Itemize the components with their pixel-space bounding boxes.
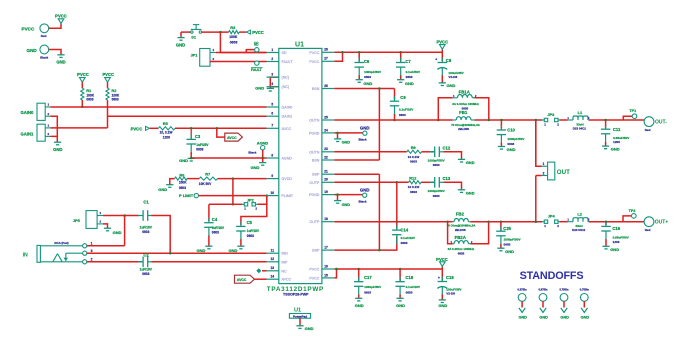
svg-text:GND: GND xyxy=(179,158,188,163)
svg-text:0805: 0805 xyxy=(458,252,465,256)
svg-text:100K: 100K xyxy=(229,35,238,39)
svg-text:GND: GND xyxy=(466,160,475,165)
ground xyxy=(336,193,339,196)
svg-text:1uF/16V: 1uF/16V xyxy=(247,229,260,233)
svg-text:(NC): (NC) xyxy=(282,76,290,80)
svg-text:PGND: PGND xyxy=(309,131,320,135)
svg-text:PVCC: PVCC xyxy=(77,72,89,77)
wire xyxy=(87,261,142,263)
svg-text:11: 11 xyxy=(271,249,275,253)
svg-text:R6: R6 xyxy=(179,172,185,177)
svg-text:28: 28 xyxy=(324,48,328,52)
svg-text:S1: S1 xyxy=(191,34,197,39)
U1 pin 20 OUTP xyxy=(322,181,335,183)
svg-text:GND: GND xyxy=(197,248,206,253)
svg-text:10K 50V: 10K 50V xyxy=(199,182,212,186)
svg-text:GAIN1: GAIN1 xyxy=(282,115,293,119)
wire xyxy=(51,116,58,136)
svg-text:PVCC: PVCC xyxy=(55,14,67,19)
svg-text:GND: GND xyxy=(363,81,372,86)
svg-text:GND: GND xyxy=(158,187,167,192)
svg-text:3A 0.4Ohm 100MHz: 3A 0.4Ohm 100MHz xyxy=(452,102,479,106)
wire xyxy=(535,120,537,165)
U1 pin 5 GAIN0 xyxy=(267,106,279,108)
svg-text:JP2: JP2 xyxy=(247,197,255,202)
wire OUTN net xyxy=(334,119,438,121)
capacitor C18 xyxy=(399,268,402,271)
svg-text:26: 26 xyxy=(324,84,328,88)
svg-text:Red: Red xyxy=(645,228,651,232)
node junction xyxy=(535,119,538,122)
svg-text:GND: GND xyxy=(560,316,569,320)
wire xyxy=(216,52,267,54)
ferrite bead FB1A xyxy=(438,98,452,120)
svg-text:1206: 1206 xyxy=(613,240,620,244)
supply PVCC xyxy=(440,45,446,50)
U1 pin 9 GVDD xyxy=(267,178,279,180)
node junction xyxy=(219,31,222,34)
resistor R12 xyxy=(409,181,421,184)
wire xyxy=(108,115,267,117)
ground xyxy=(237,245,244,247)
svg-text:0603: 0603 xyxy=(399,113,406,117)
svg-text:INN: INN xyxy=(282,252,289,256)
supply PVCC xyxy=(440,262,446,267)
U1 pin 12 INP xyxy=(267,261,279,263)
svg-text:1uF/16V: 1uF/16V xyxy=(140,225,153,229)
svg-text:GND: GND xyxy=(507,147,516,152)
svg-text:(NC): (NC) xyxy=(282,85,290,89)
svg-text:5: 5 xyxy=(271,102,273,106)
testpoint SD xyxy=(246,50,254,53)
U1 pin 2 FAULT xyxy=(267,61,279,63)
svg-text:1: 1 xyxy=(543,162,545,166)
wire xyxy=(589,119,644,121)
wire xyxy=(103,224,108,228)
inductor L1 xyxy=(568,119,573,121)
svg-text:GND: GND xyxy=(447,83,456,88)
svg-text:2BLD08: 2BLD08 xyxy=(455,228,466,232)
svg-text:1000pF/50V: 1000pF/50V xyxy=(504,238,522,242)
wire xyxy=(489,119,542,121)
U1 pin 28 PVCC xyxy=(322,51,335,53)
wire xyxy=(421,181,434,183)
wire AVCC net xyxy=(175,127,267,129)
capacitor C3 xyxy=(190,127,193,130)
svg-text:4: 4 xyxy=(271,82,273,86)
svg-text:TP1: TP1 xyxy=(629,109,636,113)
wire OUTP net xyxy=(334,221,447,223)
svg-text:GND: GND xyxy=(610,247,619,252)
svg-text:10: 10 xyxy=(271,191,275,195)
svg-text:AVCC: AVCC xyxy=(282,278,292,282)
svg-text:0.875in: 0.875in xyxy=(538,288,547,292)
svg-text:BSP: BSP xyxy=(312,249,320,253)
wire xyxy=(150,127,159,129)
svg-text:10 0.1W: 10 0.1W xyxy=(408,155,420,159)
wire xyxy=(152,216,171,254)
ground xyxy=(336,132,339,135)
svg-text:0.875in: 0.875in xyxy=(518,288,527,292)
U1 pin 23 OUTN xyxy=(322,151,335,153)
svg-text:C5: C5 xyxy=(247,220,253,225)
svg-text:NC: NC xyxy=(282,269,288,273)
svg-text:C3: C3 xyxy=(195,134,201,139)
wire xyxy=(87,245,125,247)
svg-text:GAIN0: GAIN0 xyxy=(21,110,34,115)
testpoint TP1 xyxy=(623,116,632,120)
svg-text:9: 9 xyxy=(271,174,273,178)
wire OUTP pin20 xyxy=(334,181,408,183)
svg-text:3: 3 xyxy=(271,73,273,77)
svg-text:RCA (Pad): RCA (Pad) xyxy=(54,241,68,245)
wire xyxy=(187,178,199,180)
svg-text:100K: 100K xyxy=(179,181,187,185)
svg-text:0.750in: 0.750in xyxy=(559,288,568,292)
capacitor C12 xyxy=(430,151,435,153)
node junction xyxy=(341,51,344,54)
node junction xyxy=(437,119,440,122)
svg-text:JP5: JP5 xyxy=(73,218,81,223)
wire to OUT connector xyxy=(535,220,538,223)
wire xyxy=(444,152,462,159)
svg-text:1000pF/50V: 1000pF/50V xyxy=(364,285,382,289)
wire PLIMIT net xyxy=(199,195,267,197)
svg-text:IN: IN xyxy=(23,252,28,258)
svg-text:PVCC: PVCC xyxy=(22,26,35,31)
U1 pin 3 (NC) xyxy=(267,76,279,78)
svg-text:C4: C4 xyxy=(212,217,218,222)
svg-text:8: 8 xyxy=(271,153,273,157)
svg-text:0603: 0603 xyxy=(142,230,149,234)
connector JP1 xyxy=(200,49,210,67)
resistor R9 xyxy=(407,150,422,153)
svg-text:GND: GND xyxy=(251,165,260,170)
svg-text:0.750in: 0.750in xyxy=(580,288,589,292)
ground xyxy=(397,297,404,299)
pad GND near pin19 xyxy=(334,194,362,196)
ground xyxy=(458,189,465,191)
svg-text:R3: R3 xyxy=(230,25,236,30)
wire INN net xyxy=(87,252,267,254)
svg-text:C16: C16 xyxy=(612,226,620,231)
svg-text:Red: Red xyxy=(645,128,651,132)
node NC diamond xyxy=(256,268,261,273)
ground xyxy=(602,145,609,147)
ground xyxy=(458,158,465,160)
svg-text:V2-D8: V2-D8 xyxy=(446,292,455,296)
svg-text:0603: 0603 xyxy=(112,98,119,102)
svg-text:GND: GND xyxy=(176,42,185,47)
svg-text:GND: GND xyxy=(466,190,475,195)
wire xyxy=(262,150,264,158)
svg-text:18: 18 xyxy=(324,217,328,221)
U1 pin 6 GAIN1 xyxy=(267,115,279,117)
ferrite bead FB2 xyxy=(448,221,453,223)
svg-text:C9: C9 xyxy=(400,95,406,100)
svg-text:70 Ohm@100MHz,3A: 70 Ohm@100MHz,3A xyxy=(447,223,477,227)
svg-text:C10: C10 xyxy=(507,127,515,132)
wire BSN net xyxy=(334,88,394,90)
wire xyxy=(560,221,568,223)
svg-text:17: 17 xyxy=(324,246,328,250)
ground xyxy=(602,245,609,247)
node junction xyxy=(393,119,396,122)
svg-text:GND: GND xyxy=(56,60,65,65)
svg-text:15: 15 xyxy=(324,273,328,277)
svg-text:GND: GND xyxy=(405,81,414,86)
wire GAIN1 net xyxy=(51,127,108,129)
svg-text:C25: C25 xyxy=(503,226,511,231)
svg-text:TP2: TP2 xyxy=(629,209,636,213)
inductor L2 xyxy=(568,221,573,223)
svg-text:GND: GND xyxy=(113,230,122,235)
svg-text:R2: R2 xyxy=(111,88,117,93)
svg-text:PVCC: PVCC xyxy=(131,126,143,131)
svg-text:SD: SD xyxy=(254,42,259,46)
svg-text:D23 04C2: D23 04C2 xyxy=(573,127,586,131)
svg-text:P LIMIT: P LIMIT xyxy=(179,193,194,198)
U1 pin 25 OUTN xyxy=(322,119,335,121)
ground xyxy=(356,79,363,81)
node junction xyxy=(396,220,399,223)
wire xyxy=(56,136,58,142)
wire xyxy=(334,159,379,161)
svg-text:JP4: JP4 xyxy=(548,214,556,219)
U1 pin 26 BSN xyxy=(322,88,335,90)
svg-text:C12: C12 xyxy=(443,146,451,151)
svg-text:OUT-: OUT- xyxy=(655,120,667,126)
svg-text:1: 1 xyxy=(271,48,273,52)
capacitor C4 xyxy=(208,204,210,221)
wire GVDD net xyxy=(218,178,267,180)
svg-text:1uF/16V: 1uF/16V xyxy=(140,268,153,272)
svg-text:16: 16 xyxy=(324,264,328,268)
svg-text:INP: INP xyxy=(282,260,289,264)
svg-text:21: 21 xyxy=(324,170,328,174)
svg-text:GND: GND xyxy=(438,303,447,308)
wire xyxy=(124,216,126,246)
ground xyxy=(397,79,404,81)
svg-text:OUTN: OUTN xyxy=(309,119,320,123)
capacitor C13 xyxy=(430,181,435,183)
U1 pin 19 PGND xyxy=(322,194,335,196)
ferrite bead FB2A xyxy=(448,222,453,244)
svg-text:FB2: FB2 xyxy=(456,211,465,216)
svg-text:Black: Black xyxy=(358,199,366,203)
svg-text:0603: 0603 xyxy=(401,241,408,245)
U1 pin 13 NC xyxy=(267,270,279,272)
svg-text:PVCC: PVCC xyxy=(102,72,114,77)
svg-text:C6: C6 xyxy=(364,59,370,64)
svg-text:TSSOP28-PWP: TSSOP28-PWP xyxy=(283,293,309,297)
svg-text:0.1uF/16V: 0.1uF/16V xyxy=(399,108,414,112)
supply PVCC xyxy=(58,19,64,24)
ground xyxy=(262,158,264,162)
svg-text:0805: 0805 xyxy=(462,106,469,110)
svg-text:GAIN0: GAIN0 xyxy=(282,106,293,110)
svg-text:C19: C19 xyxy=(446,275,454,280)
svg-text:R5: R5 xyxy=(163,121,169,126)
wire BSP pin17 xyxy=(334,236,396,250)
wire xyxy=(334,269,336,278)
wire BSP pin21 xyxy=(334,173,379,175)
testpoint FAULT xyxy=(255,61,259,65)
svg-text:GND: GND xyxy=(518,316,527,320)
svg-text:U1: U1 xyxy=(295,41,304,48)
wire xyxy=(180,32,182,37)
capacitor C10 xyxy=(500,119,503,122)
ground xyxy=(497,247,504,249)
svg-text:20: 20 xyxy=(324,178,328,182)
svg-text:C8: C8 xyxy=(446,58,452,63)
wire xyxy=(378,89,380,161)
svg-text:PVCC: PVCC xyxy=(252,30,264,35)
wire INP net xyxy=(152,261,267,263)
svg-text:GAIN1: GAIN1 xyxy=(21,131,34,136)
wire GAIN0 net xyxy=(51,106,267,108)
svg-text:OUT+: OUT+ xyxy=(655,220,669,226)
svg-text:0603: 0603 xyxy=(142,272,149,276)
svg-text:GND: GND xyxy=(355,303,364,308)
svg-text:+: + xyxy=(438,276,440,280)
svg-text:Black: Black xyxy=(248,150,256,154)
wire PVCC bottom xyxy=(334,266,442,269)
svg-text:0603: 0603 xyxy=(364,75,371,79)
svg-text:GND: GND xyxy=(342,141,351,145)
svg-text:Red: Red xyxy=(41,34,47,38)
svg-text:C1: C1 xyxy=(143,200,149,205)
svg-text:AGND: AGND xyxy=(282,157,293,161)
U1 pin 22 BSN xyxy=(322,159,335,161)
capacitor C11 xyxy=(604,119,607,122)
node junction xyxy=(123,214,126,217)
U1 pin 17 BSP xyxy=(322,249,335,251)
svg-text:PVCC: PVCC xyxy=(309,276,319,280)
svg-text:GND: GND xyxy=(396,303,405,308)
wire xyxy=(170,179,175,185)
svg-text:BSN: BSN xyxy=(312,159,320,163)
node junction xyxy=(335,268,338,271)
svg-text:PVCC: PVCC xyxy=(309,268,319,272)
node junction xyxy=(487,220,490,223)
svg-text:OUTN: OUTN xyxy=(309,150,320,154)
wire OUTN pin23 xyxy=(334,151,406,153)
svg-text:0.1uF/16V: 0.1uF/16V xyxy=(401,236,416,240)
svg-text:PGND: PGND xyxy=(309,193,320,197)
capacitor C14 xyxy=(396,225,398,230)
U1 pin 18 OUTP xyxy=(322,221,335,223)
wire xyxy=(103,215,139,217)
svg-text:C2: C2 xyxy=(143,253,149,258)
svg-text:19: 19 xyxy=(324,190,328,194)
svg-text:FB1A: FB1A xyxy=(459,89,470,94)
svg-text:JP1: JP1 xyxy=(191,53,199,58)
svg-text:OUT: OUT xyxy=(557,169,570,176)
pad OUT+ (Red) xyxy=(644,217,654,227)
svg-text:1: 1 xyxy=(91,242,93,246)
svg-text:0.1uF/50V: 0.1uF/50V xyxy=(406,70,421,74)
wire xyxy=(220,32,266,52)
svg-text:0.68uF/50V: 0.68uF/50V xyxy=(613,235,630,239)
wire xyxy=(255,278,267,280)
svg-text:FB1: FB1 xyxy=(459,110,468,115)
svg-text:6: 6 xyxy=(271,112,273,116)
node junction xyxy=(266,194,269,197)
svg-text:0603: 0603 xyxy=(433,163,440,167)
svg-text:STANDOFFS: STANDOFFS xyxy=(520,270,584,282)
svg-text:GND: GND xyxy=(539,316,548,320)
svg-text:10 0.1W: 10 0.1W xyxy=(408,185,420,189)
svg-text:C17: C17 xyxy=(364,275,372,280)
wire xyxy=(49,50,61,55)
wire xyxy=(560,119,568,121)
svg-text:0603: 0603 xyxy=(247,234,254,238)
U1 pin 24 PGND xyxy=(322,132,335,134)
U1 pin 1 SD xyxy=(267,52,279,54)
ground xyxy=(439,82,446,84)
svg-text:R1: R1 xyxy=(86,88,92,93)
wire pins 3-4 NC xyxy=(270,77,279,88)
svg-text:OUTP: OUTP xyxy=(309,181,320,185)
capacitor C5 xyxy=(240,222,242,227)
svg-text:OUTP: OUTP xyxy=(309,220,320,224)
node junction xyxy=(488,119,491,122)
wire xyxy=(378,174,380,250)
U1 pin 10 PLIMIT xyxy=(267,195,279,197)
capacitor C19 polarized xyxy=(441,269,443,281)
wire AGND net xyxy=(191,157,266,159)
ground xyxy=(439,299,446,301)
svg-text:GND: GND xyxy=(360,126,370,131)
svg-text:PowerPad: PowerPad xyxy=(293,314,307,318)
svg-text:GND: GND xyxy=(305,326,314,331)
svg-text:R12: R12 xyxy=(409,175,417,180)
svg-text:2BLD08: 2BLD08 xyxy=(458,127,469,131)
ground xyxy=(205,245,212,247)
svg-text:25: 25 xyxy=(324,115,328,119)
wire xyxy=(241,196,267,225)
wire xyxy=(536,120,542,166)
svg-text:C13: C13 xyxy=(443,176,451,181)
ferrite bead FB1 xyxy=(438,119,452,121)
svg-text:0603: 0603 xyxy=(406,291,413,295)
svg-text:0603: 0603 xyxy=(410,190,417,194)
svg-text:C11: C11 xyxy=(613,127,621,132)
U1 pin 27 PVCC xyxy=(322,60,335,62)
wire xyxy=(239,31,246,33)
svg-text:R9: R9 xyxy=(411,145,417,150)
svg-text:1000pF/50V: 1000pF/50V xyxy=(507,137,525,141)
svg-text:0603: 0603 xyxy=(410,160,417,164)
svg-text:PVCC: PVCC xyxy=(436,257,448,262)
testpoint TP2 xyxy=(623,216,631,222)
capacitor C2 xyxy=(138,261,143,263)
U1 pin 16 PVCC xyxy=(322,268,335,270)
svg-text:10, 0.1W: 10, 0.1W xyxy=(160,131,173,135)
svg-text:2: 2 xyxy=(543,171,545,175)
ground xyxy=(498,146,505,148)
U1 pin 14 AVCC xyxy=(267,278,279,280)
svg-text:12: 12 xyxy=(271,257,275,261)
node junction xyxy=(232,177,235,180)
ground xyxy=(267,87,274,89)
svg-text:Black: Black xyxy=(40,56,48,60)
svg-text:22: 22 xyxy=(324,155,328,159)
svg-text:GND: GND xyxy=(27,48,38,53)
svg-text:0603: 0603 xyxy=(179,186,186,190)
svg-text:1206: 1206 xyxy=(613,140,620,144)
